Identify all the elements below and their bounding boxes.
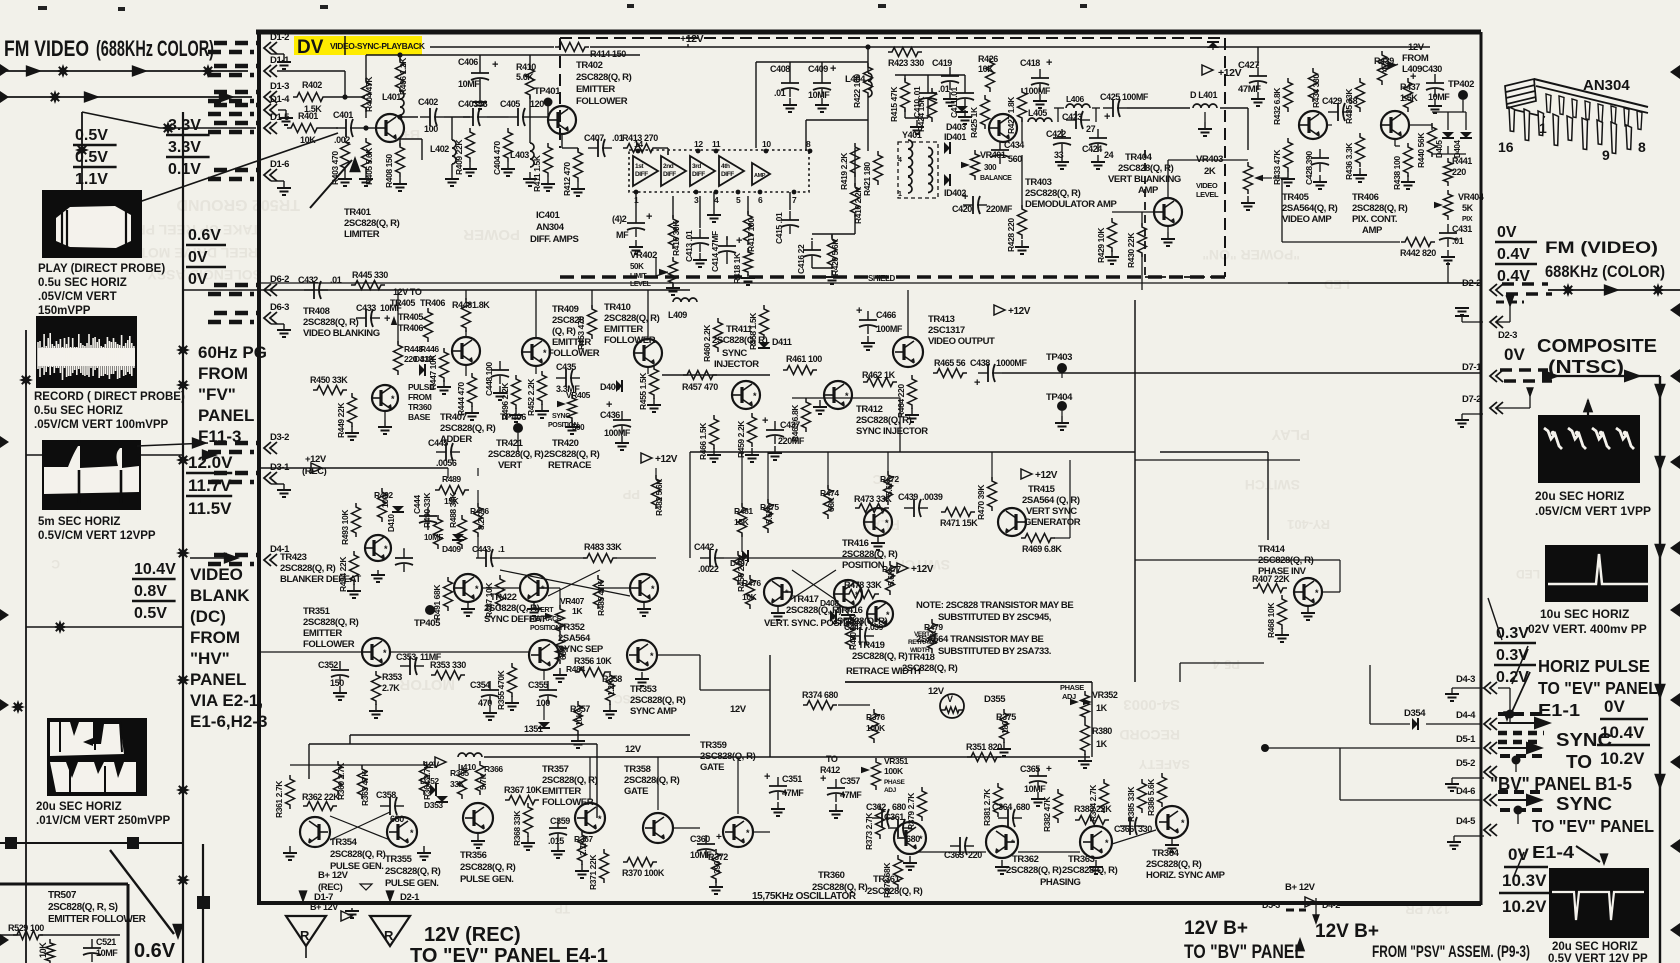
ground bbox=[1111, 250, 1113, 257]
svg-text:TR362: TR362 bbox=[1012, 854, 1039, 865]
resistor R432 bbox=[1284, 78, 1293, 112]
transistor TR416 bbox=[834, 580, 862, 608]
svg-text:6: 6 bbox=[758, 195, 763, 205]
wire bbox=[904, 75, 906, 81]
svg-text:PHASE: PHASE bbox=[1060, 683, 1084, 692]
svg-text:L406: L406 bbox=[1066, 94, 1084, 104]
svg-text:R412 470: R412 470 bbox=[562, 162, 572, 196]
svg-text:*: * bbox=[383, 648, 387, 658]
svg-text:C448 100: C448 100 bbox=[484, 362, 494, 396]
wire box bbox=[0, 883, 128, 886]
svg-text:R493 10K: R493 10K bbox=[340, 509, 350, 545]
box bbox=[792, 398, 900, 452]
svg-text:VR403: VR403 bbox=[1196, 154, 1223, 165]
svg-text:R364 2.7K: R364 2.7K bbox=[422, 762, 432, 800]
transistor TR404 bbox=[1154, 198, 1182, 226]
svg-text:D5-1: D5-1 bbox=[1456, 734, 1476, 745]
svg-text:R452 2.2K: R452 2.2K bbox=[526, 378, 536, 416]
svg-text:D3-2: D3-2 bbox=[270, 432, 289, 443]
svg-text:16: 16 bbox=[1498, 139, 1514, 155]
svg-text:TR502 GROUND: TR502 GROUND bbox=[176, 196, 300, 213]
svg-text:R356 10K: R356 10K bbox=[574, 656, 612, 666]
svg-text:.05V/CM VERT 1VPP: .05V/CM VERT 1VPP bbox=[1535, 504, 1651, 518]
svg-text:DIFF: DIFF bbox=[635, 171, 648, 178]
arrowhead bbox=[1542, 370, 1560, 383]
op-amp 2nd DIFF bbox=[661, 156, 686, 186]
wire bbox=[1282, 241, 1400, 243]
potentiometer VR402 bbox=[669, 257, 678, 287]
svg-text:SWITCH: SWITCH bbox=[1245, 477, 1300, 493]
wire bbox=[487, 116, 508, 118]
resistor R442 bbox=[1401, 238, 1435, 247]
ground bbox=[1359, 168, 1361, 175]
svg-text:.0056: .0056 bbox=[436, 458, 457, 468]
svg-text:RY-401: RY-401 bbox=[1287, 517, 1330, 532]
wire dashes bbox=[214, 441, 258, 446]
coil DL401 bbox=[1193, 104, 1217, 108]
wire bbox=[1497, 407, 1530, 409]
svg-text:R482 5.6K: R482 5.6K bbox=[654, 478, 664, 516]
svg-text:C401: C401 bbox=[333, 110, 353, 120]
arrow bbox=[1312, 914, 1320, 925]
svg-text:PULSE GEN.: PULSE GEN. bbox=[460, 874, 514, 885]
node dot bbox=[1514, 806, 1523, 815]
capacitor C407 bbox=[588, 147, 598, 149]
svg-text:TO "EV" PANEL E4-1: TO "EV" PANEL E4-1 bbox=[410, 945, 608, 963]
svg-text:RECORD ( DIRECT PROBE): RECORD ( DIRECT PROBE) bbox=[34, 391, 185, 403]
star node bbox=[176, 673, 190, 687]
capacitor C436 bbox=[621, 411, 623, 420]
wire bbox=[482, 587, 520, 589]
ground bbox=[609, 704, 611, 711]
wire bbox=[1127, 107, 1190, 109]
svg-text:2SC828(Q, R): 2SC828(Q, R) bbox=[624, 775, 680, 786]
resistor R416 bbox=[669, 215, 678, 249]
svg-text:2SC828(Q, R): 2SC828(Q, R) bbox=[303, 317, 359, 328]
svg-text:R457 470: R457 470 bbox=[682, 382, 718, 392]
resistor R414 bbox=[555, 43, 589, 52]
resistor R445 bbox=[351, 281, 385, 290]
ground bbox=[365, 172, 367, 179]
resistor R488 bbox=[458, 515, 467, 549]
svg-text:DIFF. AMPS: DIFF. AMPS bbox=[530, 234, 578, 245]
svg-text:TR406: TR406 bbox=[1352, 192, 1379, 203]
wire dashes bbox=[214, 311, 258, 316]
potentiometer VR352 bbox=[1081, 691, 1090, 721]
svg-text:R404 47K: R404 47K bbox=[364, 76, 374, 112]
svg-text:+: + bbox=[716, 832, 722, 843]
wire bbox=[561, 134, 563, 148]
capacitor C414 bbox=[726, 237, 728, 246]
svg-text:R444 470: R444 470 bbox=[456, 382, 466, 416]
svg-text:R468 10K: R468 10K bbox=[1266, 602, 1276, 638]
svg-text:R438 100: R438 100 bbox=[1392, 156, 1402, 190]
svg-text:10.2V: 10.2V bbox=[1600, 749, 1645, 768]
edge mark bbox=[0, 609, 9, 621]
wire bbox=[1338, 904, 1481, 906]
wire bbox=[277, 70, 345, 72]
resistor R361 bbox=[286, 775, 295, 809]
wire dashes bbox=[214, 64, 258, 69]
svg-text:PULSE GEN.: PULSE GEN. bbox=[385, 878, 439, 889]
svg-text:EMITTER: EMITTER bbox=[604, 324, 643, 335]
svg-text:2SA564(Q, R): 2SA564(Q, R) bbox=[1282, 203, 1338, 214]
svg-text:R473 33K: R473 33K bbox=[854, 494, 892, 504]
resistor R446 bbox=[424, 308, 433, 342]
wire bbox=[1432, 111, 1466, 113]
svg-text:AN304: AN304 bbox=[536, 222, 565, 233]
svg-text:100MF: 100MF bbox=[604, 428, 631, 438]
svg-text:+: + bbox=[856, 305, 862, 317]
svg-text:D1-4: D1-4 bbox=[270, 94, 290, 105]
svg-text:10MF: 10MF bbox=[96, 948, 118, 958]
edge mark bbox=[0, 64, 9, 76]
wire bbox=[258, 282, 1481, 284]
star node bbox=[176, 546, 190, 560]
svg-text:12V: 12V bbox=[625, 744, 642, 755]
svg-text:300: 300 bbox=[984, 163, 997, 172]
capacitor C425 bbox=[1103, 107, 1113, 109]
node bbox=[865, 44, 870, 49]
svg-text:SYNC SEP: SYNC SEP bbox=[558, 644, 604, 655]
svg-text:2SC828(Q, R): 2SC828(Q, R) bbox=[344, 218, 400, 229]
svg-text:D5-2: D5-2 bbox=[1456, 758, 1475, 769]
svg-text:1.2K: 1.2K bbox=[606, 678, 616, 696]
ground pin4 bbox=[713, 192, 715, 212]
svg-text:D405: D405 bbox=[1435, 140, 1444, 158]
svg-text:TR409: TR409 bbox=[552, 304, 579, 315]
svg-text:POSITION: POSITION bbox=[842, 560, 885, 571]
svg-text:ADJ: ADJ bbox=[884, 787, 897, 794]
svg-text:Y401: Y401 bbox=[902, 130, 922, 140]
diode D411 bbox=[758, 342, 770, 348]
wire bbox=[366, 54, 400, 56]
svg-text:R382 47K: R382 47K bbox=[1042, 796, 1052, 832]
svg-text:RECORD: RECORD bbox=[1119, 727, 1180, 743]
svg-text:TO "EV" PANEL: TO "EV" PANEL bbox=[1538, 678, 1658, 698]
svg-text:1K: 1K bbox=[1096, 703, 1108, 713]
svg-text:D406: D406 bbox=[600, 382, 620, 392]
svg-text:TR360: TR360 bbox=[818, 870, 845, 881]
resistor R423 bbox=[888, 48, 922, 57]
diode D409 bbox=[452, 534, 464, 540]
svg-text:12V (REC): 12V (REC) bbox=[424, 924, 521, 946]
ground bbox=[621, 436, 623, 443]
wire bbox=[0, 934, 20, 936]
capacitor C444 bbox=[427, 507, 429, 516]
svg-text:BALANCE: BALANCE bbox=[980, 175, 1012, 182]
wire bbox=[1515, 760, 1517, 772]
svg-text:PHASE: PHASE bbox=[884, 779, 905, 786]
resistor R469 bbox=[1021, 534, 1055, 543]
svg-text:*: * bbox=[543, 348, 547, 358]
svg-text:TR355: TR355 bbox=[385, 854, 413, 865]
svg-text:EMITTER: EMITTER bbox=[542, 786, 581, 797]
ground bbox=[777, 606, 779, 613]
svg-text:2SC828(Q, R): 2SC828(Q, R) bbox=[488, 449, 544, 460]
svg-text:R416 39K: R416 39K bbox=[671, 220, 681, 256]
node square bbox=[197, 896, 210, 909]
svg-text:2SC828(Q, R): 2SC828(Q, R) bbox=[280, 563, 336, 574]
svg-text:VIDEO: VIDEO bbox=[190, 565, 243, 584]
svg-text:ID401: ID401 bbox=[944, 132, 966, 142]
diode D403 bbox=[956, 106, 968, 112]
svg-text:RETRACE: RETRACE bbox=[548, 460, 591, 471]
capacitor C415 bbox=[789, 211, 791, 220]
svg-text:2SC828(Q, R): 2SC828(Q, R) bbox=[385, 866, 441, 877]
svg-text:FOLLOWER: FOLLOWER bbox=[576, 96, 628, 107]
transistor TR363 bbox=[1080, 826, 1112, 858]
arrowhead bbox=[192, 437, 208, 449]
star node bbox=[201, 64, 215, 78]
svg-text:0.5V VERT 12V PP: 0.5V VERT 12V PP bbox=[1548, 953, 1648, 963]
wire bbox=[700, 689, 770, 691]
testpoint TP404 bbox=[1057, 401, 1067, 411]
svg-text:PANEL: PANEL bbox=[198, 406, 254, 425]
svg-text:10K: 10K bbox=[742, 592, 758, 602]
svg-text:C429: C429 bbox=[1322, 96, 1342, 106]
resistor R375 bbox=[1000, 709, 1009, 743]
svg-text:100: 100 bbox=[424, 124, 438, 134]
wire bbox=[747, 196, 749, 214]
svg-text:0.4V: 0.4V bbox=[1497, 246, 1530, 263]
oscillogram sync bbox=[1549, 868, 1649, 938]
resistor R413 bbox=[623, 144, 657, 153]
svg-text:9: 9 bbox=[1602, 147, 1610, 163]
resistor R402 bbox=[293, 93, 327, 102]
svg-text:D1-7: D1-7 bbox=[314, 892, 333, 903]
svg-text:20u SEC HORIZ: 20u SEC HORIZ bbox=[36, 801, 122, 813]
svg-text:.039: .039 bbox=[868, 622, 884, 632]
svg-text:0V: 0V bbox=[188, 271, 208, 288]
svg-text:*: * bbox=[541, 584, 545, 594]
resistor R419 bbox=[851, 143, 860, 177]
svg-text:R435 33K: R435 33K bbox=[1344, 88, 1354, 124]
wire dashes bbox=[1502, 282, 1548, 286]
svg-text:VR351: VR351 bbox=[884, 756, 909, 766]
ground small bbox=[351, 908, 353, 911]
svg-text:R378 68K: R378 68K bbox=[882, 862, 892, 898]
node bbox=[397, 114, 402, 119]
svg-text:10.4V: 10.4V bbox=[134, 561, 176, 578]
svg-text:TR358: TR358 bbox=[624, 764, 651, 775]
svg-text:R419 2.2K: R419 2.2K bbox=[839, 152, 849, 190]
ground bbox=[467, 602, 469, 609]
svg-text:TR364: TR364 bbox=[1152, 848, 1180, 859]
svg-text:R414 150: R414 150 bbox=[590, 49, 626, 59]
svg-text:C418: C418 bbox=[1020, 58, 1040, 68]
resistor R353v bbox=[372, 671, 381, 705]
svg-text:R441: R441 bbox=[1452, 156, 1472, 166]
arrowhead bbox=[224, 552, 240, 564]
op-amp 3rd DIFF bbox=[690, 156, 715, 186]
diagonal arrow bbox=[310, 160, 352, 208]
resistor R435 bbox=[1356, 78, 1365, 112]
oscillogram trace bbox=[50, 722, 136, 792]
diode D352 bbox=[430, 784, 436, 796]
wire bbox=[755, 62, 757, 148]
svg-text:2SC828(Q, R): 2SC828(Q, R) bbox=[852, 651, 908, 662]
svg-text:C430: C430 bbox=[1422, 64, 1442, 74]
svg-text:SAFETY: SAFETY bbox=[1138, 757, 1190, 772]
capacitor C434 bbox=[999, 141, 1001, 150]
resistor R444 bbox=[468, 373, 477, 407]
resistor R476 bbox=[746, 575, 755, 609]
svg-text:B+ 12V: B+ 12V bbox=[310, 902, 338, 912]
wire bbox=[1054, 107, 1064, 109]
svg-text:*: * bbox=[746, 828, 750, 838]
svg-text:B+ 12V: B+ 12V bbox=[1285, 882, 1316, 893]
svg-text:TR412: TR412 bbox=[856, 404, 883, 415]
svg-text:C438: C438 bbox=[970, 358, 990, 368]
svg-text:(DC): (DC) bbox=[190, 607, 226, 626]
wire out bbox=[1548, 375, 1660, 377]
svg-text:C353: C353 bbox=[396, 652, 416, 662]
svg-text:10u SEC HORIZ: 10u SEC HORIZ bbox=[1540, 607, 1629, 621]
svg-text:R442 820: R442 820 bbox=[1400, 248, 1436, 258]
arrowhead bbox=[1498, 799, 1536, 801]
svg-text:*: * bbox=[1011, 838, 1015, 848]
edge mark bbox=[1670, 541, 1680, 555]
resistor R455 bbox=[650, 365, 659, 399]
star node bbox=[11, 700, 25, 714]
capacitor C401 bbox=[336, 127, 346, 129]
svg-text:+: + bbox=[384, 313, 390, 325]
resistor R447 bbox=[440, 348, 449, 382]
svg-text:R455 1.5K: R455 1.5K bbox=[638, 372, 648, 410]
star node bbox=[53, 620, 67, 634]
capacitor C430 bbox=[1434, 74, 1436, 83]
wire dashes bbox=[214, 168, 258, 173]
resistor R486 bbox=[474, 503, 483, 537]
svg-text:L401: L401 bbox=[382, 92, 401, 102]
capacitor C420 bbox=[963, 204, 973, 206]
edge mark bbox=[0, 934, 9, 946]
resistor R448 bbox=[394, 341, 403, 375]
resistor R376 bbox=[870, 709, 879, 743]
svg-text:AMP: AMP bbox=[1138, 185, 1159, 196]
svg-text:.0022: .0022 bbox=[698, 564, 719, 574]
resistor R355 bbox=[508, 663, 517, 697]
label +12V bbox=[1021, 469, 1032, 479]
ground bbox=[278, 109, 286, 111]
svg-text:.1: .1 bbox=[498, 544, 505, 554]
op-amp 4th DIFF bbox=[719, 156, 744, 186]
svg-text:27: 27 bbox=[1086, 124, 1096, 134]
resistor R363 bbox=[358, 765, 367, 799]
svg-text:R402: R402 bbox=[302, 80, 322, 90]
edge mark bbox=[1670, 693, 1680, 707]
svg-text:10MF: 10MF bbox=[424, 533, 443, 542]
svg-text:R384 2.7K: R384 2.7K bbox=[1088, 784, 1098, 822]
arrowhead bus bbox=[1654, 456, 1666, 472]
coil L406 bbox=[1066, 104, 1090, 108]
diode D351 bbox=[538, 722, 550, 728]
svg-text:R476: R476 bbox=[742, 578, 761, 588]
svg-text:R379 2.7K: R379 2.7K bbox=[906, 792, 916, 830]
svg-text:4th: 4th bbox=[721, 163, 730, 170]
svg-text:C413 .01: C413 .01 bbox=[684, 230, 694, 262]
node dot bbox=[1506, 710, 1515, 719]
svg-text:10: 10 bbox=[762, 139, 771, 149]
resistor R386 bbox=[1158, 773, 1167, 807]
svg-text:RETRACE WIDTH: RETRACE WIDTH bbox=[846, 666, 921, 677]
resistor R458 bbox=[760, 305, 769, 339]
svg-text:LIMIT: LIMIT bbox=[630, 273, 647, 280]
resistor R483 bbox=[583, 554, 617, 563]
wire bbox=[290, 764, 435, 766]
svg-text:0V: 0V bbox=[188, 249, 208, 266]
resistor R474 bbox=[824, 485, 833, 519]
svg-text:100K: 100K bbox=[866, 723, 886, 733]
ground bbox=[271, 180, 284, 182]
svg-text:*: * bbox=[785, 588, 789, 598]
oscillogram trace bbox=[1544, 428, 1634, 449]
rule bbox=[1504, 866, 1548, 869]
svg-text:D1-5: D1-5 bbox=[270, 112, 290, 123]
svg-text:220: 220 bbox=[1452, 167, 1466, 177]
ground bbox=[672, 284, 674, 288]
svg-text:PIX: PIX bbox=[1462, 216, 1473, 223]
wire bbox=[447, 468, 449, 478]
resistor R362 bbox=[303, 802, 337, 811]
svg-text:C420: C420 bbox=[952, 204, 972, 214]
wire bbox=[465, 290, 467, 300]
svg-text:L402: L402 bbox=[430, 144, 449, 154]
svg-text:10K: 10K bbox=[38, 942, 48, 958]
svg-text:*: * bbox=[384, 544, 388, 554]
svg-text:8: 8 bbox=[1638, 139, 1646, 155]
resistor R487 bbox=[496, 575, 505, 609]
resistor R403 bbox=[341, 138, 350, 172]
ground bbox=[635, 240, 637, 247]
svg-text:2SC828(Q, R): 2SC828(Q, R) bbox=[867, 886, 923, 897]
svg-text:0.3V: 0.3V bbox=[1496, 625, 1529, 642]
capacitor C431 bbox=[1447, 224, 1449, 233]
node square bbox=[127, 837, 139, 849]
svg-text:C406: C406 bbox=[458, 57, 478, 67]
svg-text:R368 33K: R368 33K bbox=[512, 810, 522, 846]
resistor R401 bbox=[287, 124, 321, 133]
svg-text:*: * bbox=[845, 391, 849, 401]
edge mark bbox=[0, 436, 9, 448]
ground bbox=[789, 98, 791, 105]
oscillogram PLAY bbox=[42, 190, 142, 258]
transistor TR359 bbox=[723, 817, 753, 847]
svg-text:TR413: TR413 bbox=[928, 314, 955, 325]
wire bbox=[1315, 898, 1317, 916]
svg-text:SYNC: SYNC bbox=[722, 348, 747, 359]
svg-text:2SC828(Q, R): 2SC828(Q, R) bbox=[700, 751, 756, 762]
oscillogram trace bbox=[38, 348, 135, 366]
potentiometer VR407 bbox=[556, 605, 565, 635]
svg-text:PLAY (DIRECT PROBE): PLAY (DIRECT PROBE) bbox=[38, 263, 165, 275]
resistor R378 bbox=[894, 855, 903, 889]
svg-text:S4-0003: S4-0003 bbox=[1123, 696, 1180, 713]
svg-text:C443: C443 bbox=[472, 544, 491, 554]
svg-text:0.5V: 0.5V bbox=[75, 127, 108, 144]
capacitor C423 bbox=[1066, 119, 1076, 121]
svg-text:.0039: .0039 bbox=[922, 492, 943, 502]
wire bbox=[789, 62, 791, 74]
svg-text:4: 4 bbox=[898, 157, 902, 164]
capacitor C352 bbox=[339, 661, 341, 670]
potentiometer VR404 bbox=[1444, 190, 1453, 220]
svg-text:+: + bbox=[1410, 71, 1416, 83]
transistor TR354 bbox=[300, 817, 330, 847]
svg-text:DIFF: DIFF bbox=[692, 171, 705, 178]
svg-text:INJECTOR: INJECTOR bbox=[714, 359, 759, 370]
